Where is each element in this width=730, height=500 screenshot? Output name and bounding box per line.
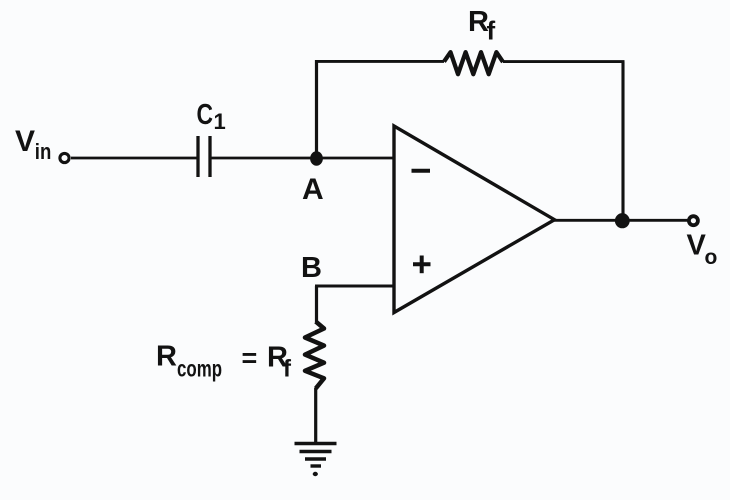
resistor Rcomp (vertical zigzag) <box>305 322 324 389</box>
node A (junction dot) <box>310 151 323 165</box>
wire B to op-amp non-inverting input <box>315 285 394 288</box>
ground <box>295 442 337 445</box>
output terminal (open circle) <box>689 216 698 225</box>
wire node A up to feedback <box>315 60 318 158</box>
wire Vin to capacitor C1 <box>71 157 197 160</box>
svg-text:R: R <box>156 341 177 373</box>
feedback wire left segment <box>315 60 444 63</box>
wire Rcomp to ground <box>314 388 317 443</box>
svg-text:V: V <box>687 230 707 262</box>
op-amp minus sign <box>412 169 431 173</box>
output node (junction dot) <box>615 213 630 228</box>
svg-text:B: B <box>301 252 322 284</box>
svg-text:A: A <box>302 173 324 206</box>
wire capacitor to op-amp inverting input <box>212 157 395 160</box>
op-amp plus sign <box>413 262 431 266</box>
resistor Rf (zigzag) <box>444 52 503 74</box>
input terminal (open circle) <box>60 153 69 162</box>
svg-text:comp: comp <box>177 356 222 382</box>
op-amp U1 triangle <box>394 126 555 313</box>
capacitor C1 left plate <box>196 136 199 177</box>
svg-text:=: = <box>242 343 258 373</box>
svg-text:1: 1 <box>214 109 226 134</box>
capacitor C1 right plate <box>208 136 211 177</box>
svg-text:f: f <box>283 356 292 383</box>
svg-text:in: in <box>35 139 52 164</box>
feedback wire right segment <box>503 60 625 63</box>
wire op-amp output to Vo <box>554 219 689 222</box>
svg-text:V: V <box>15 125 35 158</box>
svg-text:o: o <box>705 246 718 269</box>
svg-text:C: C <box>197 99 214 131</box>
wire B corner down to Rcomp <box>315 286 318 322</box>
svg-text:f: f <box>487 16 496 46</box>
feedback wire down to output node <box>621 62 624 221</box>
